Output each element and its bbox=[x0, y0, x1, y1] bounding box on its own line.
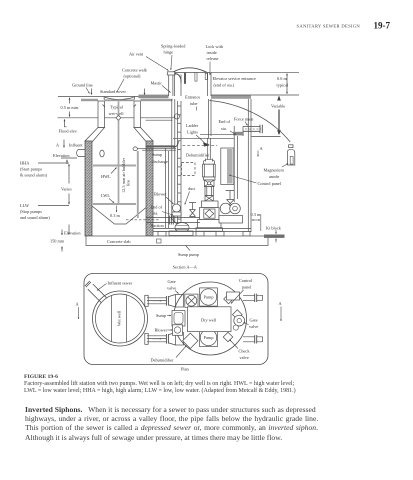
svg-text:Check: Check bbox=[239, 349, 251, 354]
control panel (plan) bbox=[227, 292, 240, 300]
svg-text:Section A—A: Section A—A bbox=[173, 264, 198, 269]
svg-text:A: A bbox=[56, 143, 60, 148]
dry well right wall bbox=[248, 99, 251, 232]
dimension Variable bbox=[278, 97, 280, 135]
station floor plate bbox=[153, 229, 251, 232]
influent sewer pipe (plan) bbox=[85, 281, 107, 303]
svg-text:hinge: hinge bbox=[164, 50, 174, 55]
svg-text:12.5 mm air bubbler: 12.5 mm air bubbler bbox=[121, 157, 126, 193]
sump pump unit bbox=[169, 223, 193, 236]
svg-text:A: A bbox=[279, 301, 283, 306]
svg-text:& sound alarm): & sound alarm) bbox=[20, 173, 48, 178]
svg-text:Lock with: Lock with bbox=[206, 44, 224, 49]
dehumidifier dashed box bbox=[182, 163, 196, 176]
svg-text:anode: anode bbox=[269, 174, 279, 179]
wet well right wall bbox=[146, 141, 153, 236]
svg-text:Control: Control bbox=[239, 278, 253, 283]
ladder rungs bbox=[178, 106, 182, 228]
svg-text:Dry well: Dry well bbox=[201, 317, 217, 322]
dry well circle bbox=[174, 282, 247, 355]
force main pipe bbox=[243, 127, 260, 132]
valve circle-X top bbox=[185, 294, 198, 307]
svg-text:Elevation: Elevation bbox=[53, 153, 70, 158]
svg-text:End of: End of bbox=[219, 119, 231, 124]
svg-text:tube: tube bbox=[190, 101, 197, 106]
body paragraph bbox=[25, 405, 316, 414]
varies dimension line bbox=[68, 164, 70, 183]
svg-text:SANITARY SEWER DESIGN: SANITARY SEWER DESIGN bbox=[297, 23, 361, 28]
sump discharge elbow bbox=[173, 141, 178, 147]
svg-text:Control panel: Control panel bbox=[258, 181, 282, 186]
suction pipe bottom (plan) bbox=[147, 336, 166, 342]
air vent cap plate bbox=[167, 72, 175, 75]
light fixture bbox=[203, 143, 210, 147]
cover edge arrows bbox=[91, 89, 93, 95]
wet well circle bbox=[93, 291, 148, 346]
svg-text:Air vent: Air vent bbox=[129, 52, 144, 57]
svg-text:Gate: Gate bbox=[168, 279, 176, 284]
svg-text:19-7: 19-7 bbox=[374, 21, 391, 31]
svg-text:Influent sewer: Influent sewer bbox=[108, 281, 133, 286]
svg-text:Sump: Sump bbox=[156, 313, 166, 318]
standard cover dish bbox=[105, 97, 134, 99]
svg-text:Influent: Influent bbox=[69, 143, 83, 148]
concrete walk bar bbox=[139, 95, 169, 99]
sump discharge drop pipe bbox=[137, 151, 139, 218]
riser flange bbox=[233, 132, 244, 136]
wet well neck left wall bbox=[98, 101, 105, 128]
plan outer rounded rect bbox=[84, 274, 268, 365]
svg-text:End of: End of bbox=[151, 205, 163, 210]
check valve diamond top bbox=[224, 294, 234, 304]
svg-text:and sound alarm): and sound alarm) bbox=[20, 215, 50, 220]
svg-text:Kt block: Kt block bbox=[266, 226, 282, 231]
svg-text:Suction: Suction bbox=[151, 223, 165, 228]
blower unit bbox=[172, 204, 181, 216]
flood line (left) bbox=[58, 117, 177, 119]
magnesium anode bbox=[287, 145, 294, 165]
svg-text:Spring-loaded: Spring-loaded bbox=[161, 44, 186, 49]
conduit dashed line bbox=[183, 145, 218, 147]
svg-text:Concrete slab: Concrete slab bbox=[107, 239, 131, 244]
svg-text:Concrete walk: Concrete walk bbox=[122, 68, 148, 73]
sump discharge header bar bbox=[146, 145, 176, 147]
dry well box bbox=[188, 307, 232, 332]
svg-text:(optional): (optional) bbox=[124, 74, 142, 79]
dimension 0.5 m min bbox=[69, 98, 71, 104]
svg-text:Varies: Varies bbox=[61, 187, 72, 192]
svg-text:150 mm: 150 mm bbox=[50, 239, 65, 244]
discharge pipe top right (plan) bbox=[243, 295, 255, 300]
svg-text:inside: inside bbox=[207, 50, 217, 55]
svg-text:valve: valve bbox=[249, 324, 258, 329]
ground line (right) bbox=[211, 94, 299, 96]
pump circle bottom (plan) bbox=[200, 328, 218, 346]
neck corner ticks bbox=[103, 105, 137, 108]
dry well roof line bbox=[146, 119, 173, 121]
ladder rails bbox=[178, 101, 182, 231]
svg-text:A: A bbox=[76, 302, 80, 307]
elevation mark (slab) bbox=[68, 225, 70, 235]
svg-text:HHA: HHA bbox=[20, 161, 30, 166]
LWL line bbox=[93, 203, 136, 205]
svg-text:Force main: Force main bbox=[234, 117, 254, 122]
suction pipe top (plan) bbox=[147, 298, 166, 304]
suction pipe flanges bbox=[169, 216, 173, 225]
pipe elbow fitting at flood line end bbox=[174, 114, 179, 119]
svg-text:Standard cover: Standard cover bbox=[100, 89, 126, 94]
gate valve bottom (plan) bbox=[176, 333, 184, 346]
gate valve top (plan) bbox=[176, 295, 184, 308]
svg-text:A: A bbox=[260, 146, 264, 151]
svg-text:HWL: HWL bbox=[101, 174, 111, 179]
Kt block bar bbox=[264, 235, 285, 238]
svg-text:Pump: Pump bbox=[203, 335, 213, 340]
influent section arrow A bbox=[63, 140, 65, 148]
svg-text:Pump: Pump bbox=[203, 295, 213, 300]
control panel bbox=[221, 148, 234, 185]
check valve diamond bottom bbox=[223, 332, 233, 342]
influent opening ellipse in wall bbox=[100, 150, 104, 157]
pump P2 volutes bbox=[219, 203, 243, 223]
svg-text:Blower: Blower bbox=[155, 328, 168, 333]
svg-text:discharge: discharge bbox=[152, 159, 168, 164]
hatch top reference line bbox=[211, 71, 299, 73]
0.3 m pointer in hopper bbox=[116, 206, 118, 213]
ground line (left) bbox=[58, 96, 142, 98]
wet well pipe flange bottom bbox=[145, 333, 148, 344]
svg-text:(end of sta.): (end of sta.) bbox=[214, 83, 235, 88]
figure caption bbox=[24, 374, 58, 380]
spring hinge curl bbox=[175, 74, 181, 84]
svg-text:panel: panel bbox=[242, 285, 252, 290]
HWL line bbox=[93, 165, 136, 167]
entrance tube right wall below ground bbox=[208, 99, 211, 138]
slab marker square bbox=[157, 239, 162, 243]
influent pipe bbox=[77, 150, 85, 157]
elevation mark (influent) bbox=[61, 158, 77, 164]
suction pipe bbox=[146, 218, 200, 223]
discharge pipe bottom right (plan) bbox=[243, 337, 255, 342]
svg-text:(Stop pumps: (Stop pumps bbox=[20, 209, 42, 214]
flood elev pointer bbox=[64, 119, 66, 124]
sump discharge pipe through wall bbox=[137, 148, 176, 150]
sump (plan) bbox=[172, 311, 185, 327]
svg-text:Dehumidifier: Dehumidifier bbox=[151, 358, 175, 363]
wet well pipe flange top bbox=[145, 295, 148, 306]
svg-text:sta.: sta. bbox=[153, 211, 159, 216]
concrete slab bbox=[86, 236, 268, 246]
svg-text:Variable: Variable bbox=[271, 104, 285, 109]
wet well chords bbox=[112, 295, 127, 342]
svg-text:duct: duct bbox=[188, 186, 196, 191]
svg-text:Lights: Lights bbox=[187, 130, 198, 135]
svg-text:Plan: Plan bbox=[181, 367, 189, 372]
svg-text:typical: typical bbox=[277, 83, 289, 88]
pump P1 assembly bbox=[196, 159, 223, 232]
pump circle top (plan) bbox=[200, 288, 218, 306]
bubbler fitting bbox=[116, 115, 121, 120]
svg-text:Gate: Gate bbox=[250, 318, 258, 323]
anode cable arc bbox=[210, 101, 291, 143]
lock barrel bbox=[205, 73, 207, 79]
svg-text:Entrance: Entrance bbox=[185, 95, 200, 100]
svg-text:Typical: Typical bbox=[110, 105, 124, 110]
dashed suction line under hopper bbox=[126, 219, 160, 221]
150 mm dimension bbox=[61, 230, 63, 236]
pump discharge header pipe bbox=[173, 135, 235, 139]
svg-text:Elevation: Elevation bbox=[64, 231, 81, 236]
wet well left shoulder bbox=[85, 128, 105, 142]
svg-text:Ground line: Ground line bbox=[72, 83, 93, 88]
svg-text:LLW: LLW bbox=[20, 203, 30, 208]
top slab (gray) bbox=[81, 95, 251, 101]
lock keeper bbox=[195, 73, 197, 82]
svg-text:Magnesium: Magnesium bbox=[264, 168, 285, 173]
air vent pipe bbox=[169, 75, 173, 96]
sump discharge outlet ellipse bbox=[133, 147, 137, 151]
svg-text:valve: valve bbox=[167, 286, 176, 291]
wet well left wall bbox=[85, 141, 92, 236]
svg-text:Sump pump: Sump pump bbox=[178, 252, 199, 257]
wet well neck right wall bbox=[134, 101, 141, 128]
svg-text:Dehumidifier: Dehumidifier bbox=[186, 153, 210, 158]
air bubbler pipe bbox=[118, 101, 120, 203]
pump shaft riser bbox=[208, 138, 211, 160]
pump U1 riser pipe bbox=[234, 126, 243, 202]
svg-text:Sump: Sump bbox=[152, 152, 162, 157]
svg-text:0.6 m: 0.6 m bbox=[277, 76, 287, 81]
entrance tube walls above ground bbox=[175, 73, 211, 97]
svg-text:line: line bbox=[126, 179, 131, 186]
svg-text:Flood elev.: Flood elev. bbox=[59, 129, 78, 134]
svg-text:wet-well: wet-well bbox=[109, 111, 125, 116]
force main depth line bbox=[252, 136, 281, 138]
wet well right shoulder bbox=[134, 128, 153, 142]
svg-text:Wet well: Wet well bbox=[117, 310, 122, 326]
svg-text:Ladder: Ladder bbox=[186, 123, 199, 128]
svg-text:Blower: Blower bbox=[154, 192, 167, 197]
svg-text:release: release bbox=[207, 56, 219, 61]
sump discharge riser pipe bbox=[166, 148, 169, 228]
hopper bottom bbox=[92, 206, 146, 224]
entrance dome hatch bbox=[172, 68, 207, 73]
discharge header circle bbox=[234, 315, 245, 326]
lock rod bbox=[184, 73, 186, 84]
sump check valve bbox=[189, 203, 196, 217]
HHA level line bbox=[38, 162, 69, 164]
svg-text:valve: valve bbox=[240, 355, 249, 360]
valve V1 with handwheel bbox=[226, 191, 235, 208]
svg-text:0.3 m: 0.3 m bbox=[110, 213, 120, 218]
floor support feet bbox=[158, 232, 250, 237]
svg-text:0.3 m: 0.3 m bbox=[251, 212, 261, 217]
vent duct bbox=[172, 99, 180, 227]
valve diamond bottom bbox=[183, 333, 198, 348]
LLW level line bbox=[38, 205, 69, 207]
blower (plan) bbox=[173, 325, 183, 336]
svg-text:Mastic: Mastic bbox=[151, 81, 163, 86]
dimension 0.6 m typical bbox=[286, 74, 288, 94]
svg-text:0.5 m min.: 0.5 m min. bbox=[61, 105, 80, 110]
svg-text:LWL: LWL bbox=[101, 193, 110, 198]
svg-text:Elevator service entrance: Elevator service entrance bbox=[213, 76, 257, 81]
svg-text:sta.: sta. bbox=[221, 126, 227, 131]
svg-text:(Start pumps: (Start pumps bbox=[20, 167, 42, 172]
gate valve diamond middle bbox=[233, 310, 243, 320]
